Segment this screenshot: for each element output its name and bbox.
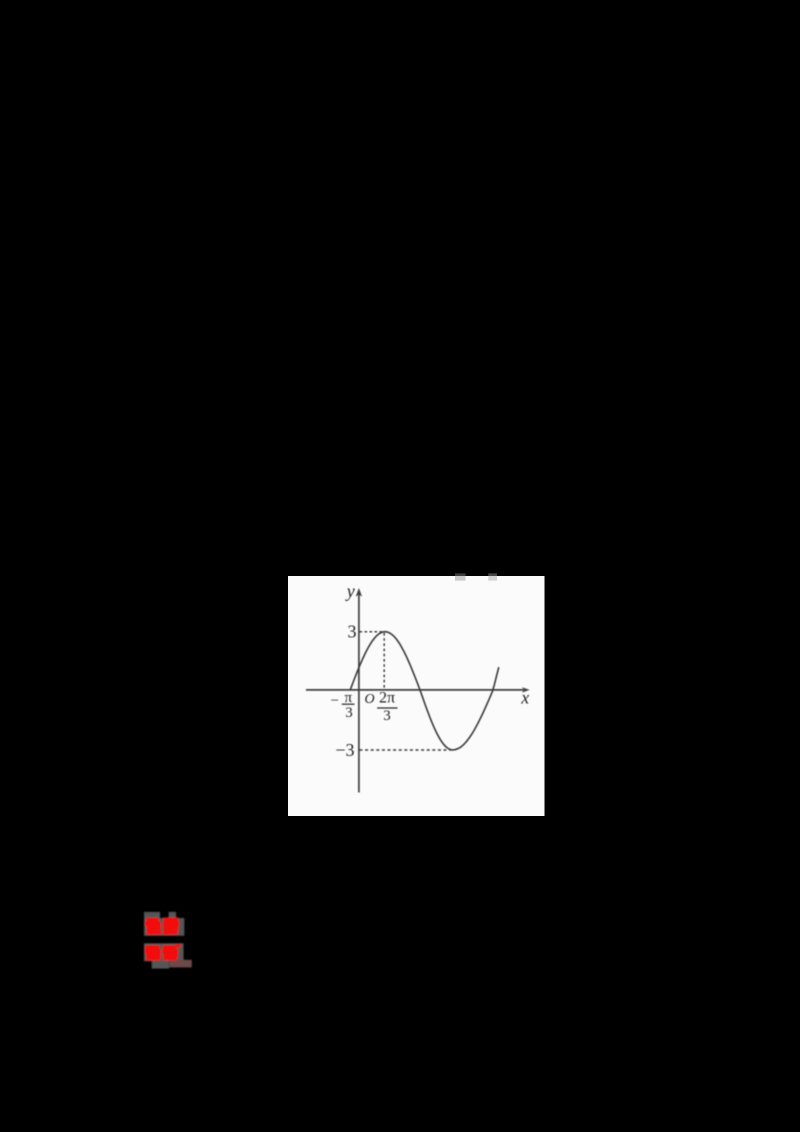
y-axis arrowhead <box>356 588 362 597</box>
dashed line x=2pi/3 <box>383 633 385 689</box>
svg-text:O: O <box>364 692 374 707</box>
svg-text:3: 3 <box>383 708 391 724</box>
red annotation line 2 gray backing <box>144 943 184 961</box>
red annotation line 2 character blob A <box>145 945 161 960</box>
red annotation line 1 character blob B <box>163 917 180 934</box>
svg-text:y: y <box>345 581 355 601</box>
svg-text:3: 3 <box>348 621 357 641</box>
red annotation line 2 character blob B <box>162 944 180 961</box>
x-axis <box>306 689 524 691</box>
svg-text:x: x <box>520 688 529 708</box>
svg-text:−: − <box>331 693 339 709</box>
smudge 1 (top edge remnant) <box>455 573 466 576</box>
svg-text:2π: 2π <box>379 690 395 707</box>
white panel <box>288 576 545 816</box>
red annotation line 1 gray backing <box>144 912 160 918</box>
smudge 2 (top edge remnant) <box>488 573 497 576</box>
sine curve <box>350 632 499 750</box>
label -pi/3 bar <box>342 703 355 705</box>
svg-text:−3: −3 <box>335 740 354 760</box>
red annotation line 1 character blob A <box>145 918 162 935</box>
red annotation line 2 brown patch <box>169 960 192 968</box>
svg-text:3: 3 <box>345 705 353 721</box>
x-axis arrowhead <box>522 687 530 692</box>
dashed line y=3 <box>360 631 384 633</box>
dashed line y=-3 <box>360 749 452 751</box>
svg-text:π: π <box>345 690 353 706</box>
label 2pi/3 bar <box>377 707 397 709</box>
y-axis <box>358 594 360 793</box>
